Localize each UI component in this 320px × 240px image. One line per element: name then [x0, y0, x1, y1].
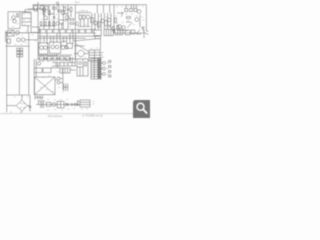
wire stub	[20, 10, 38, 13]
terminal row box5	[65, 56, 69, 60]
tube V3	[51, 45, 55, 49]
zoom button	[133, 100, 150, 118]
IC U5 hatched	[89, 50, 100, 61]
stamp box	[80, 100, 90, 107]
tube V4	[55, 45, 59, 49]
wire	[55, 68, 63, 90]
resistor R17	[115, 18, 117, 23]
resistor R30	[85, 62, 87, 66]
wire	[100, 63, 103, 74]
resistor R8d	[64, 7, 66, 11]
resistor R19	[7, 39, 10, 43]
transistor Q9b	[122, 26, 126, 30]
transistor Q2	[61, 11, 65, 15]
resistor R6	[53, 22, 55, 26]
capacitor C2b	[67, 9, 69, 10]
terminal row box1	[39, 56, 43, 60]
wire	[117, 12, 140, 31]
resistor R20	[75, 104, 78, 106]
wire right rail	[145, 5, 147, 31]
transistor Q6	[86, 15, 90, 19]
relay box K6	[67, 43, 73, 48]
module box M1	[77, 59, 88, 76]
resistor R2	[48, 11, 50, 15]
transistor Q3b	[43, 8, 46, 11]
resistor R14	[130, 9, 133, 12]
transistor Q12	[21, 38, 25, 42]
wire feedback diagonal 2	[76, 44, 89, 52]
wire left long verticals	[7, 32, 29, 113]
wire ladder	[52, 63, 76, 67]
bridge rectifier BR1	[16, 100, 27, 111]
tube V4b	[61, 46, 65, 50]
tube V2	[43, 46, 47, 50]
resistor R7	[70, 19, 74, 21]
pilot lamp	[52, 103, 56, 107]
wire left double vertical	[34, 59, 36, 95]
component value labels (tiny smudges)	[8, 6, 145, 113]
antenna Y1	[57, 4, 59, 7]
wire link	[38, 9, 68, 27]
transistor Q4 input stage left	[12, 16, 16, 20]
wire	[7, 95, 30, 113]
resistor R2b	[40, 6, 44, 10]
transistor Q6e	[76, 22, 79, 25]
wire row2 boxes	[34, 68, 42, 73]
tube V6	[37, 62, 40, 65]
wire C bottom	[78, 19, 90, 27]
fuse F1	[46, 102, 50, 106]
terminal strip TB1	[17, 48, 20, 51]
wire bus taps	[40, 33, 73, 44]
resistor R13	[125, 9, 128, 12]
wire	[6, 40, 39, 46]
wire	[100, 39, 103, 58]
tube V1 box	[39, 43, 48, 54]
wire input left box	[8, 12, 20, 29]
transistor Q3c	[56, 22, 60, 26]
wire main mid bus	[6, 32, 39, 34]
resistor R8e	[70, 8, 72, 12]
svg-text:L—: L—	[76, 0, 81, 4]
power transformer T2 box with X	[35, 77, 56, 95]
wire ground bus bottom	[7, 94, 30, 96]
wire diagonal	[127, 22, 132, 27]
svg-text:c1 R2 c4: c1 R2 c4	[79, 11, 88, 13]
resistor R3	[40, 22, 42, 26]
resistor R11b	[98, 22, 101, 27]
connector CN1	[97, 59, 101, 79]
pin tags	[109, 61, 111, 63]
filter caps C5 C6	[57, 77, 60, 80]
terminal row circle1	[44, 57, 47, 60]
switch S1 left	[7, 30, 14, 36]
capacitor C1	[53, 17, 55, 18]
wire left vertical main	[37, 2, 39, 60]
wire bottom rail of top section	[38, 29, 96, 31]
relay box K0	[22, 13, 31, 26]
tube V4c	[65, 46, 68, 49]
resistor R4	[44, 22, 46, 26]
knob circles	[103, 62, 106, 65]
transistor Q6b	[94, 21, 98, 25]
IC U2	[125, 30, 130, 35]
svg-text:6L6 schema: 6L6 schema	[48, 114, 63, 118]
connector bracket	[64, 84, 68, 92]
resistor R15	[134, 9, 137, 12]
capacitor C4	[71, 103, 72, 106]
tube V3 box	[49, 42, 60, 53]
relay K1	[61, 41, 67, 45]
terminal row box4	[60, 56, 64, 60]
resistor R18b	[117, 26, 119, 30]
wire	[114, 29, 148, 38]
IC U3	[131, 30, 135, 34]
resistor R0	[34, 6, 37, 12]
resistor R1	[43, 11, 45, 15]
wire	[6, 31, 29, 42]
wire top-left stub	[28, 5, 38, 33]
diode D1	[108, 25, 110, 28]
capacitor C3	[142, 27, 145, 31]
resistor R12	[104, 21, 107, 26]
transistor Q5	[13, 19, 17, 23]
connector J row	[94, 30, 101, 36]
resistor R11	[91, 18, 94, 23]
transistor Q6d	[107, 18, 111, 22]
transistor Q8	[135, 18, 139, 22]
filter box hatch	[60, 68, 70, 73]
terminal row box3	[53, 56, 57, 60]
diode D2	[66, 103, 69, 106]
transformer T3	[38, 100, 45, 108]
transistor Q10	[16, 31, 20, 35]
resistor R10	[79, 15, 82, 19]
transistor Q6c	[101, 19, 105, 23]
wire C top link	[76, 5, 110, 13]
capacitor C2	[61, 23, 64, 29]
relay box K0b	[31, 27, 40, 33]
resistor R9	[17, 14, 19, 17]
terminal row circle2	[57, 57, 60, 60]
resistor R2c	[45, 6, 48, 10]
resistor R10b	[83, 15, 86, 19]
wire feedback diagonal	[74, 39, 99, 42]
tube V1	[40, 46, 44, 50]
IC U0	[104, 29, 113, 35]
resistor R8b	[53, 7, 57, 9]
plug ticks	[35, 95, 43, 99]
power chain wire	[36, 104, 80, 106]
transistor Q3	[65, 16, 69, 20]
resistor R8	[70, 23, 74, 25]
IC U1	[115, 29, 123, 34]
wire	[38, 30, 76, 60]
resistor R16	[127, 17, 131, 19]
transistor Q7	[137, 10, 141, 14]
wire link	[63, 11, 71, 17]
wire	[74, 38, 85, 62]
transistor Q9	[118, 25, 122, 29]
hatch row mid	[39, 54, 58, 56]
transistor Q20	[79, 62, 82, 65]
switch S3	[136, 29, 141, 34]
resistor R8c	[58, 10, 62, 12]
op-amp U4	[78, 50, 84, 56]
magnifier icon	[137, 103, 147, 113]
resistor R5	[49, 22, 51, 26]
terminal row box2	[47, 56, 51, 60]
wire vertical bus drops top section	[44, 5, 75, 30]
resistor R18	[112, 27, 114, 31]
transistor Q11	[17, 38, 21, 42]
module box	[57, 101, 64, 108]
terminal block X1	[95, 36, 101, 39]
wire D cluster verticals	[126, 5, 136, 9]
diode D3	[29, 106, 32, 111]
footer divider line	[0, 113, 134, 114]
transistor Q1	[44, 16, 48, 20]
wire lower links	[48, 48, 72, 56]
capacitor stubs under top rail	[39, 30, 92, 33]
wire mid verticals C cluster	[92, 5, 114, 33]
wire top supply rail	[33, 4, 146, 6]
wire links	[51, 60, 76, 70]
